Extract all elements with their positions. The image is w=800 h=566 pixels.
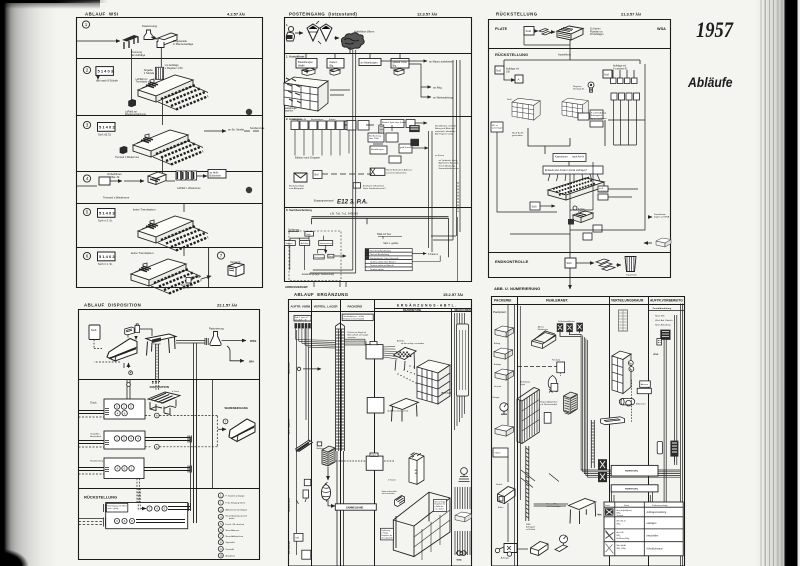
svg-text:7: 7 <box>220 534 222 538</box>
svg-text:FEHLERABT.: FEHLERABT. <box>546 299 569 303</box>
svg-text:AUFTR.VORBEREITG: AUFTR.VORBEREITG <box>650 299 683 303</box>
svg-text:22.1.57 λλi: 22.1.57 λλi <box>217 303 237 308</box>
svg-text:ADRESSION: ADRESSION <box>288 498 291 512</box>
svg-text:Neue WS: Neue WS <box>655 316 665 318</box>
svg-text:Vergriffen: Vergriffen <box>90 433 100 436</box>
svg-text:Vorbereitung: Vorbereitung <box>320 242 333 245</box>
svg-text:FAHRSTUHL: FAHRSTUHL <box>625 488 639 491</box>
svg-text:beschriften: beschriften <box>647 535 659 538</box>
svg-text:K.Karte m: K.Karte m <box>428 253 438 256</box>
svg-text:Packplatz: Packplatz <box>493 310 507 314</box>
svg-text:Sammelstellen ect.m: Sammelstellen ect.m <box>439 167 459 170</box>
svg-text:Karten: Karten <box>330 60 338 64</box>
svg-text:Druck: Druck <box>90 402 97 405</box>
svg-text:3: 3 <box>220 508 222 512</box>
svg-text:1: 1 <box>220 494 222 498</box>
svg-text:8: 8 <box>220 540 222 544</box>
svg-text:WSS: WSS <box>250 339 257 343</box>
svg-text:Blg.: Blg. <box>393 64 398 68</box>
svg-text:21.3.57 λλi: 21.3.57 λλi <box>621 12 641 17</box>
svg-text:Auftragszustellung: Auftragszustellung <box>646 511 667 514</box>
svg-text:B z.Würz/Auftrag: B z.Würz/Auftrag <box>591 112 606 115</box>
svg-text:Druck / HL drucken: Druck / HL drucken <box>226 523 245 526</box>
svg-text:AUFTR. VORB: AUFTR. VORB <box>291 305 311 309</box>
svg-text:BEARBEITUNG: BEARBEITUNG <box>403 309 421 312</box>
svg-text:12.3.57 λλi: 12.3.57 λλi <box>417 12 437 17</box>
svg-text:keine Trennkarten: keine Trennkarten <box>133 208 156 212</box>
svg-text:Text mit Bearbeitung: Text mit Bearbeitung <box>370 253 390 256</box>
svg-text:Stoß: Stoß <box>567 262 573 265</box>
svg-text:Kontrolle: Kontrolle <box>153 343 162 346</box>
svg-text:F- Sätzeit anlegege: F- Sätzeit anlegege <box>226 494 246 497</box>
svg-text:FAHRSTUHL: FAHRSTUHL <box>625 470 639 473</box>
svg-text:PACKEREI: PACKEREI <box>348 305 363 309</box>
svg-text:EINTEILUNG: EINTEILUNG <box>289 541 291 554</box>
svg-text:Ausgleich: Ausgleich <box>226 555 236 558</box>
svg-text:Wert 30.12: Wert 30.12 <box>617 520 626 523</box>
svg-text:ENDKONTROLLE: ENDKONTROLLE <box>495 259 529 264</box>
svg-text:VERTEILUNGSRAUM: VERTEILUNGSRAUM <box>611 299 644 303</box>
svg-text:geschoben: geschoben <box>512 135 523 137</box>
svg-text:Prüfnummernfolge: Prüfnummernfolge <box>652 504 668 507</box>
svg-text:Bußzetteln: Bußzetteln <box>210 174 222 177</box>
svg-text:Bestkarte mitkommen: Bestkarte mitkommen <box>363 184 385 187</box>
svg-text:legiert auf WSA: legiert auf WSA <box>654 216 670 219</box>
svg-text:Termine später: Termine später <box>370 268 384 271</box>
svg-text:5 1 4 0 2: 5 1 4 0 2 <box>99 124 115 129</box>
svg-text:jeho Auftr. - Nr.: jeho Auftr. - Nr. <box>294 318 308 321</box>
svg-text:ADRESSIERABT.: ADRESSIERABT. <box>285 285 308 289</box>
svg-text:n Register 1.50: n Register 1.50 <box>165 66 183 70</box>
svg-text:WS¿ 200g: WS¿ 200g <box>617 548 626 550</box>
svg-text:Neue Adlsätschen: Neue Adlsätschen <box>226 535 244 538</box>
svg-text:Einband an Darmstadied: Einband an Darmstadied <box>343 317 364 320</box>
svg-text:Einlauf: Einlauf <box>496 484 502 486</box>
svg-text:Aufzüge: Aufzüge <box>501 557 510 560</box>
svg-text:Adlsätsche berühtigen: Adlsätsche berühtigen <box>226 509 248 512</box>
svg-text:keine Trennkarten: keine Trennkarten <box>131 251 154 255</box>
svg-text:WSS: WSS <box>653 354 659 356</box>
svg-text:F ab. Eingang beten: F ab. Eingang beten <box>226 502 246 505</box>
svg-text:4.2.57 λλi: 4.2.57 λλi <box>227 12 245 17</box>
svg-text:PACKEREI: PACKEREI <box>494 299 511 303</box>
svg-text:frühstücksraum: frühstücksraum <box>647 548 663 551</box>
svg-text:WH: WH <box>249 360 254 364</box>
svg-text:SAMMELBAND: SAMMELBAND <box>346 506 364 509</box>
svg-text:an Mauro aufarbeiten: an Mauro aufarbeiten <box>429 60 454 64</box>
svg-text:Sorf z.B.31: Sorf z.B.31 <box>98 133 111 137</box>
svg-text:5 1 4 0 3: 5 1 4 0 3 <box>98 69 114 74</box>
svg-text:gestell. Post: gestell. Post <box>393 60 407 64</box>
svg-text:Termine sofort ohne Bericht: Termine sofort ohne Bericht <box>370 261 396 264</box>
svg-text:POSTEINGANG (Istzustand): POSTEINGANG (Istzustand) <box>289 12 357 17</box>
svg-text:Fehlerkontrollfächer: Fehlerkontrollfächer <box>558 320 575 323</box>
svg-text:Klebezettel: Klebezettel <box>636 403 646 406</box>
svg-text:Sonderursre: Sonderursre <box>250 126 265 130</box>
svg-text:an Werbeabtlung: an Werbeabtlung <box>433 96 453 100</box>
svg-text:Satz u. gelöss: Satz u. gelöss <box>383 242 399 245</box>
svg-text:Genn Sonderwünsche?: Genn Sonderwünsche? <box>363 187 387 190</box>
svg-text:Brieflochung: Brieflochung <box>369 135 382 138</box>
svg-text:Kassierung: Kassierung <box>142 24 157 28</box>
svg-text:Sorf nr 3. St.: Sorf nr 3. St. <box>98 219 113 223</box>
svg-text:1.: 1. <box>286 23 289 27</box>
svg-text:Trennesl z.Wiederrune: Trennesl z.Wiederrune <box>115 156 140 159</box>
svg-text:ADDITION: ADDITION <box>288 362 291 374</box>
svg-text:KARB: KARB <box>371 454 377 457</box>
svg-text:über 1500: über 1500 <box>369 137 380 140</box>
svg-text:In Karton: In Karton <box>388 479 396 482</box>
svg-text:PLATE: PLATE <box>495 27 508 31</box>
svg-text:A: A <box>518 78 520 82</box>
svg-text:ABB. U. NUMERIERUNG: ABB. U. NUMERIERUNG <box>494 286 540 291</box>
svg-text:6. Sachbearbeitung: 6. Sachbearbeitung <box>286 208 312 212</box>
svg-text:zum Ablspapier: zum Ablspapier <box>289 187 304 190</box>
svg-text:Belüftung 400g: Belüftung 400g <box>617 537 630 540</box>
svg-text:5 1 4 0 2: 5 1 4 0 2 <box>99 254 115 259</box>
svg-text:Bestellungen: Bestellungen <box>298 60 314 64</box>
svg-text:Austeilfonn: Austeilfonn <box>558 53 571 57</box>
svg-text:Stoß: Stoß <box>496 70 502 73</box>
svg-text:7: 7 <box>225 420 227 424</box>
svg-text:erledigen: erledigen <box>647 522 658 525</box>
svg-text:Nach Bu-Nr: Nach Bu-Nr <box>512 132 524 135</box>
svg-text:in Plannenanfäge: in Plannenanfäge <box>173 42 194 46</box>
svg-text:1. Austeilfonn: 1. Austeilfonn <box>286 55 305 59</box>
svg-text:Bell: Bell <box>315 174 319 177</box>
svg-text:aufträgen: aufträgen <box>599 190 607 193</box>
svg-text:Stempel-Nr.: Stempel-Nr. <box>573 88 585 91</box>
svg-text:b. Karte: b. Karte <box>172 390 180 393</box>
svg-text:Stoß: Stoß <box>604 74 610 77</box>
svg-text:Gerät: Gerät <box>605 504 610 507</box>
svg-text:VERTEIL. LAGER: VERTEIL. LAGER <box>314 305 339 309</box>
svg-text:0 u.andere B.: 0 u.andere B. <box>613 67 628 70</box>
svg-text:ABLAUF ERGÄNZUNG: ABLAUF ERGÄNZUNG <box>294 292 349 297</box>
svg-text:Ausführen Zweitkontrolle: Ausführen Zweitkontrolle <box>388 410 409 413</box>
svg-text:Stoß: Stoß <box>507 98 512 101</box>
svg-text:WARENEINGANG: WARENEINGANG <box>225 406 248 410</box>
svg-text:Text ohne Bearbeitung: Text ohne Bearbeitung <box>370 249 392 252</box>
svg-text:versetzen: versetzen <box>348 336 356 339</box>
svg-text:an Verbands. Karto,: an Verbands. Karto, <box>439 159 459 162</box>
svg-text:No Eingang von Wero: No Eingang von Wero <box>107 506 127 508</box>
svg-text:1: 1 <box>85 22 88 27</box>
svg-text:1 Stünde: 1 Stünde <box>144 71 155 75</box>
svg-text:Papierkorb: Papierkorb <box>626 274 637 277</box>
svg-text:Beständigen: Beständigen <box>311 118 324 121</box>
svg-text:ABLAUF WSI: ABLAUF WSI <box>85 12 119 17</box>
svg-text:WS - DRUCK: WS - DRUCK <box>288 419 291 434</box>
svg-text:zur 5 St.: zur 5 St. <box>181 287 190 290</box>
svg-text:Beln: Beln <box>306 234 311 236</box>
svg-text:Spezialtei: Spezialtei <box>226 541 236 544</box>
svg-text:1: 1 <box>220 501 222 505</box>
svg-text:5: 5 <box>220 522 222 526</box>
svg-text:Kleine Bezb.ohne Adresse,: Kleine Bezb.ohne Adresse, <box>386 169 413 172</box>
svg-text:Regal: Regal <box>520 384 526 386</box>
svg-text:an Str. Straße: an Str. Straße <box>228 128 245 132</box>
svg-text:Ballen: Ballen <box>498 507 503 509</box>
svg-text:der Aufträge: der Aufträge <box>131 53 146 57</box>
svg-text:Bestellungen: Bestellungen <box>371 148 384 151</box>
svg-text:MC an: MC an <box>492 125 498 127</box>
svg-text:Neue Beladictig: Neue Beladictig <box>655 324 671 327</box>
svg-text:beiter: beiter <box>229 517 235 520</box>
svg-text:an Ablg.: an Ablg. <box>433 86 443 90</box>
svg-text:Edition nach Gruppen: Edition nach Gruppen <box>295 156 321 160</box>
svg-text:z.B. 7x0, 7x1, 349,348: z.B. 7x0, 7x1, 349,348 <box>330 212 358 216</box>
svg-text:RÜCKSTELLUNG: RÜCKSTELLUNG <box>495 52 528 57</box>
svg-text:Neue Adresse: Neue Adresse <box>226 529 241 532</box>
svg-text:und Wertzulagen: und Wertzulagen <box>546 505 560 508</box>
svg-text:Stoß: Stoß <box>91 328 97 332</box>
svg-text:Wertregal: Wertregal <box>441 392 451 395</box>
svg-text:Versand: Versand <box>494 385 501 388</box>
svg-text:Leerricht mitkommen: Leerricht mitkommen <box>386 171 407 174</box>
svg-text:ABLAUF DISPOSITION: ABLAUF DISPOSITION <box>84 303 141 308</box>
svg-text:Stoß: Stoß <box>532 206 538 209</box>
svg-text:Aufträge: Aufträge <box>494 363 501 366</box>
svg-text:2: 2 <box>86 68 89 73</box>
svg-text:Werf. Adr. Überfür: Werf. Adr. Überfür <box>655 319 673 322</box>
svg-text:20 Aufträgen: 20 Aufträgen <box>590 33 604 36</box>
svg-text:Trennkarte u.: Trennkarte u. <box>136 81 150 84</box>
svg-text:ab alles richtig u vorhanden: ab alles richtig u vorhanden <box>401 342 424 345</box>
svg-text:Briefumschläge: Briefumschläge <box>289 185 305 188</box>
svg-text:6: 6 <box>86 254 89 259</box>
svg-text:Waffe: Waffe <box>298 64 305 68</box>
svg-text:WEGRAUREN: WEGRAUREN <box>454 309 471 312</box>
svg-text:Kontrolle: Kontrolle <box>226 548 235 551</box>
svg-text:WSA: WSA <box>457 559 463 562</box>
svg-text:LuPlättl z. Wiederrune: LuPlättl z. Wiederrune <box>177 187 201 190</box>
svg-text:Sonderdrucke, Lohn (Versand): Sonderdrucke, Lohn (Versand) <box>370 257 399 260</box>
svg-text:Termine sofort mit Bericht: Termine sofort mit Bericht <box>370 264 394 267</box>
svg-text:Eingangsstempel: Eingangsstempel <box>314 199 334 203</box>
svg-text:an Abteilungen: an Abteilungen <box>361 61 379 65</box>
svg-text:Grundüberholung: Grundüberholung <box>653 308 672 310</box>
svg-text:5: 5 <box>86 210 89 215</box>
svg-text:Waagen: Waagen <box>493 397 500 399</box>
svg-text:Fertigungen: Fertigungen <box>314 256 325 259</box>
svg-text:Anfuhrig: Anfuhrig <box>301 242 310 245</box>
svg-text:in Regal: in Regal <box>578 211 586 213</box>
svg-text:Aufträgenteil,: Aufträgenteil, <box>591 114 603 117</box>
svg-text:Buch: Buch <box>329 256 334 258</box>
svg-text:auf Fehlab.: auf Fehlab. <box>526 529 536 531</box>
svg-text:5 1 4 0 3: 5 1 4 0 3 <box>99 210 115 215</box>
svg-text:Blatt mit Text: Blatt mit Text <box>377 233 391 236</box>
svg-text:gelb.Karteik.: gelb.Karteik. <box>400 146 413 149</box>
svg-text:Karten: Karten <box>329 118 336 121</box>
svg-text:Adresse: Adresse <box>641 383 649 386</box>
svg-text:Kassettennr: Kassettennr <box>555 156 568 159</box>
svg-text:Blg.: Blg. <box>330 64 335 68</box>
svg-text:3: 3 <box>86 123 89 128</box>
svg-text:Register-: Register- <box>573 85 582 88</box>
svg-text:9: 9 <box>220 547 222 551</box>
svg-text:und ↙ gültig: und ↙ gültig <box>107 507 118 510</box>
svg-text:a.d. Wertversandteil: a.d. Wertversandteil <box>540 403 557 406</box>
svg-text:Adm: Adm <box>598 514 602 517</box>
svg-text:Kleben: Kleben <box>495 453 501 455</box>
svg-text:Sorf nr 1. St.: Sorf nr 1. St. <box>98 262 113 266</box>
svg-text:Auftrag: Auftrag <box>494 342 500 345</box>
svg-text:Alle Papiere sortab: Alle Papiere sortab <box>435 133 454 136</box>
svg-text:an Kasse: an Kasse <box>435 155 445 157</box>
svg-text:zur o Zettel: zur o Zettel <box>435 508 445 511</box>
svg-text:ad d. versetzen: ad d. versetzen <box>382 492 395 495</box>
svg-text:Betrag auf Blatt und: Betrag auf Blatt und <box>435 127 455 130</box>
svg-text:dari nach 8 Stünde: dari nach 8 Stünde <box>96 79 118 83</box>
svg-text:RÜCKSTELLUNG: RÜCKSTELLUNG <box>84 495 117 500</box>
svg-text:machine: machine <box>284 110 294 113</box>
svg-text:die aufgestellt: die aufgestellt <box>381 536 393 539</box>
svg-text:4: 4 <box>220 515 222 519</box>
svg-text:7: 7 <box>220 253 223 258</box>
svg-text:1/B: 1/B <box>506 70 510 73</box>
svg-text:RÜCKSTELLUNG: RÜCKSTELLUNG <box>496 12 538 17</box>
svg-text:6: 6 <box>220 528 222 532</box>
svg-text:Stoß: Stoß <box>526 29 532 33</box>
svg-text:Aus 240: Aus 240 <box>617 531 624 534</box>
svg-text:nach Listen-Nr: nach Listen-Nr <box>292 118 306 121</box>
svg-text:Dauer: Dauer <box>624 504 630 507</box>
svg-text:Einkauft oder Arnite in Kanal: Einkauft oder Arnite in Kanal einfragen? <box>545 169 588 172</box>
svg-text:Ausstellauf: Ausstellauf <box>90 435 101 438</box>
svg-text:15.2.57 λλi: 15.2.57 λλi <box>443 292 463 297</box>
svg-text:Wiederentnahmung: Wiederentnahmung <box>125 113 147 116</box>
svg-text:Bedarf: Spät oder Karten: Bedarf: Spät oder Karten <box>382 121 407 124</box>
svg-text:Restbestimig: Restbestimig <box>90 460 103 463</box>
svg-text:Wert (ab)A: Wert (ab)A <box>617 544 627 547</box>
svg-text:Kartoffanten: Kartoffanten <box>654 213 667 216</box>
svg-text:Schubri :: Schubri : <box>617 514 625 517</box>
svg-text:Ausstellungslager Weiterleitun: Ausstellungslager Weiterleitung <box>302 273 335 276</box>
svg-text:Fahrkarte: Fahrkarte <box>552 359 560 362</box>
svg-text:(m): (m) <box>296 536 300 539</box>
svg-text:by ein Lochkarten: by ein Lochkarten <box>591 117 607 120</box>
svg-text:DISPOSITION: DISPOSITION <box>150 385 169 389</box>
svg-text:Trennesl z.Wiederrune: Trennesl z.Wiederrune <box>103 196 130 200</box>
svg-text:nach Art-Nr: nach Art-Nr <box>572 156 584 159</box>
svg-text:ERGÄNZUNGS-ABTL.: ERGÄNZUNGS-ABTL. <box>397 303 458 307</box>
svg-text:aufschlagen: aufschlagen <box>492 128 503 130</box>
svg-text:Rationierung: Rationierung <box>209 327 224 331</box>
svg-text:4: 4 <box>86 176 89 181</box>
svg-text:Mitteilungen: Mitteilungen <box>538 328 548 331</box>
svg-text:Agentinnen Ausland,: Agentinnen Ausland, <box>439 162 459 165</box>
svg-text:WSA: WSA <box>657 27 666 31</box>
